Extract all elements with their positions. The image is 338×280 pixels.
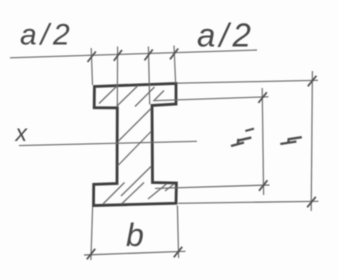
tick a/2 left outer <box>88 52 96 63</box>
tick h1 top <box>258 92 266 103</box>
hatch T3 <box>135 87 155 107</box>
svg-text:a/2: a/2 <box>20 19 74 52</box>
tick h top <box>308 76 317 87</box>
label h1 subscript 1 <box>245 129 254 131</box>
hatch W3 web <box>121 166 152 196</box>
hatch B2 bottom flange <box>122 183 145 205</box>
svg-text:a/2: a/2 <box>197 17 255 54</box>
b left extension <box>91 207 93 260</box>
h top extension <box>177 80 318 83</box>
extension line flange right <box>174 46 176 84</box>
hatch T2 <box>116 86 138 108</box>
hatch B1 bottom flange <box>103 183 125 205</box>
hatch T1 <box>99 86 118 104</box>
I-beam cross-section outline <box>94 84 177 206</box>
svg-text:x: x <box>15 120 29 146</box>
extension line web right <box>148 47 149 105</box>
thin dimension / extension lines <box>10 46 319 261</box>
hatch B4 bottom flange <box>165 184 174 191</box>
dimension tick marks <box>87 49 317 260</box>
x axis line <box>19 141 197 145</box>
b right extension <box>177 206 178 259</box>
extension line flange left <box>91 48 92 85</box>
h dimension line <box>311 71 312 211</box>
hatch T4 <box>155 91 165 101</box>
h1 bottom extension <box>155 185 270 188</box>
top dimension line a/2 <box>10 50 257 58</box>
label h (rotated, drawn strokes) <box>280 137 302 144</box>
hatch W2 web <box>118 132 152 167</box>
tick a/2 right outer <box>170 49 178 60</box>
hatch W1 web <box>118 109 151 142</box>
h1 dimension line <box>262 88 263 195</box>
b dimension line <box>84 251 186 255</box>
tick b right <box>174 247 182 257</box>
h bottom extension <box>178 201 319 203</box>
hatching: top flange <box>99 86 174 205</box>
label h1 (rotated, drawn strokes) <box>231 138 251 146</box>
tick b left <box>87 249 95 259</box>
svg-text:b: b <box>126 217 144 253</box>
tick a/2 left inner <box>114 50 122 61</box>
tick a/2 right inner <box>145 50 153 61</box>
extension line web left <box>116 47 118 108</box>
tick h1 bottom <box>259 180 267 191</box>
tick h bottom <box>307 197 316 208</box>
hatch B3 bottom flange <box>148 184 167 199</box>
h1 top extension <box>153 97 269 101</box>
